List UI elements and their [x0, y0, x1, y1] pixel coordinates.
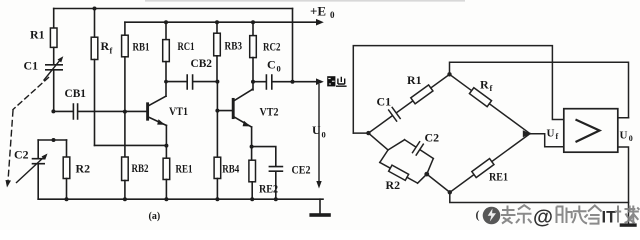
- top edge smudge: [145, 0, 465, 2]
- junction R2 bottom: [65, 197, 69, 201]
- svg-text:C: C: [267, 58, 276, 72]
- svg-text:U: U: [620, 130, 628, 142]
- node VT2 emitter: [250, 145, 254, 149]
- wire +E0 supply rail: [125, 21, 317, 23]
- capacitor CB2: [166, 75, 217, 111]
- capacitor Co: [253, 75, 317, 89]
- resistor RE1: [165, 146, 167, 159]
- char 头: [501, 206, 516, 224]
- resistor Rf: [94, 9, 96, 38]
- svg-text:C2: C2: [425, 131, 440, 145]
- transistor VT1: [146, 104, 149, 119]
- svg-text:f: f: [556, 132, 559, 141]
- capacitor C2 (variable): [33, 140, 45, 199]
- svg-text:R: R: [480, 78, 489, 92]
- label RB2: [132, 161, 149, 175]
- op-amp U1: [564, 109, 618, 153]
- svg-text:U: U: [312, 123, 321, 137]
- power +E0 arrow: [316, 19, 324, 26]
- svg-text:RB2: RB2: [132, 161, 149, 175]
- voltage Uo arrow (left): [318, 85, 320, 183]
- char 技: [615, 206, 636, 224]
- svg-text:VT1: VT1: [169, 106, 188, 118]
- svg-text:IT: IT: [602, 209, 617, 227]
- junction RB4 bottom: [215, 197, 219, 201]
- label R2: [76, 162, 91, 176]
- label R1: [30, 28, 45, 42]
- gang coupling dashed link: [13, 78, 49, 110]
- svg-text:C2: C2: [14, 148, 29, 162]
- junction RB2 bottom: [123, 197, 127, 201]
- resistor RB1: [124, 22, 126, 35]
- svg-text:@: @: [533, 206, 553, 229]
- node RC1 top: [164, 20, 168, 24]
- svg-text:U: U: [547, 128, 555, 140]
- svg-text:CB2: CB2: [191, 58, 213, 70]
- svg-text:C1: C1: [24, 59, 39, 73]
- capacitor CE2: [252, 147, 283, 200]
- svg-text:R2: R2: [76, 162, 91, 176]
- node CB2 tap: [164, 80, 168, 84]
- junction CE2 bottom: [274, 197, 278, 201]
- char 条: [516, 205, 532, 223]
- label Uo: [312, 123, 326, 140]
- transistor VT2: [232, 99, 235, 117]
- label RB1: [133, 40, 150, 54]
- node VT1 base divider: [123, 110, 127, 114]
- wire tank top: [38, 139, 66, 141]
- label 输出 (output, black glyphs): [327, 76, 346, 86]
- label RB3: [225, 39, 243, 53]
- label RE1: [176, 162, 193, 176]
- node bridge bottom: [448, 190, 452, 194]
- svg-text:0: 0: [277, 64, 281, 74]
- char 卧: [557, 207, 572, 224]
- svg-text:R2: R2: [386, 178, 401, 192]
- ground: [319, 199, 321, 213]
- node output: [291, 80, 295, 84]
- capacitor C1 (variable): [46, 65, 62, 70]
- node VT2 base: [215, 109, 219, 113]
- wire block to bottom node: [427, 174, 450, 192]
- ground (right): [620, 223, 637, 226]
- resistor RC1: [165, 22, 167, 39]
- node bridge right (arrow tip): [523, 130, 531, 137]
- label CB1: [65, 88, 87, 100]
- svg-text:0: 0: [330, 10, 335, 20]
- node block output: [424, 172, 429, 177]
- label RC1: [178, 39, 195, 53]
- wire Rf to VT1 emitter: [95, 144, 167, 146]
- watermark 头条@卧龙会IT技术: [476, 205, 640, 228]
- char 术: [628, 206, 640, 224]
- svg-text:RC1: RC1: [178, 39, 195, 53]
- svg-text:RE1: RE1: [489, 170, 508, 184]
- label C1: [24, 59, 39, 73]
- node RC2 / output tap: [251, 80, 255, 84]
- output arrow: [316, 78, 324, 85]
- resistor R1: [53, 9, 55, 29]
- node Rf top: [93, 7, 97, 11]
- label (a): [149, 211, 161, 222]
- resistor RC2: [252, 22, 254, 35]
- node RC2 top: [251, 20, 255, 24]
- svg-text:RB3: RB3: [225, 39, 243, 53]
- label +E0: [310, 4, 335, 21]
- resistor RB3: [216, 22, 218, 33]
- svg-text:VT2: VT2: [260, 107, 279, 119]
- label C2: [425, 131, 440, 145]
- svg-text:+E: +E: [310, 4, 326, 19]
- node RB3 top: [215, 20, 219, 24]
- capacitor CB1: [53, 104, 146, 119]
- char 会: [588, 206, 602, 224]
- wire right node to op-amp lower input: [530, 134, 564, 147]
- label Uf: [547, 128, 559, 142]
- resistor R2: [66, 140, 68, 157]
- label RE1: [489, 170, 508, 184]
- label VT1: [169, 106, 188, 118]
- label R2: [386, 178, 401, 192]
- label C1: [377, 95, 392, 109]
- svg-text:0: 0: [629, 134, 633, 143]
- label RC2: [263, 40, 281, 54]
- resistor RE1 arm: [448, 131, 533, 196]
- svg-text:RB1: RB1: [133, 40, 150, 54]
- char 龙: [572, 206, 587, 224]
- wire A: left node to op-amp upper input: [353, 46, 564, 134]
- wire op-amp outputs: [618, 118, 629, 224]
- node CB2/RB3 junction: [215, 80, 219, 84]
- svg-text:C1: C1: [377, 95, 392, 109]
- svg-text:0: 0: [322, 130, 326, 140]
- label C2: [14, 148, 29, 162]
- label R1: [407, 73, 422, 87]
- resistor Rf arm: [447, 71, 532, 136]
- watermark logo circle: [483, 207, 501, 225]
- node VT1 base / CB1 tap: [51, 109, 55, 113]
- label Co: [267, 58, 281, 74]
- node VT1 emitter: [164, 144, 168, 148]
- svg-text:R: R: [101, 39, 110, 53]
- wire feedback drop to output: [292, 9, 294, 82]
- svg-text:RB4: RB4: [222, 162, 239, 176]
- wire VT2 base: [217, 110, 232, 112]
- svg-text:CB1: CB1: [65, 88, 87, 100]
- svg-text:RE1: RE1: [176, 162, 193, 176]
- svg-text:RC2: RC2: [263, 40, 281, 54]
- resistor RE2: [251, 147, 253, 161]
- junction RE1 bottom: [164, 197, 168, 201]
- label RB4: [222, 162, 239, 176]
- resistor RB2: [124, 112, 126, 157]
- capacitor C1 / resistor R1 arm: [364, 69, 453, 139]
- junction RE2 bottom: [250, 197, 254, 201]
- svg-text:(a): (a): [149, 211, 161, 222]
- svg-text:f: f: [110, 46, 113, 56]
- node bridge top: [447, 72, 451, 76]
- node bridge left: [366, 131, 370, 135]
- svg-text:R1: R1: [30, 28, 45, 42]
- label VT2: [260, 107, 279, 119]
- label CE2: [292, 163, 311, 177]
- label CB2: [191, 58, 213, 70]
- label RE2: [259, 182, 278, 196]
- wire B: top node to op-amp output: [450, 62, 629, 118]
- node C1 to C2/R2 tank: [52, 138, 56, 142]
- label Uo: [620, 130, 633, 144]
- svg-text:CE2: CE2: [292, 163, 311, 177]
- wire top feedback rail: [54, 8, 293, 10]
- C2 / R2 parallel block: [368, 133, 388, 150]
- label Rf: [101, 39, 113, 56]
- svg-text:R1: R1: [407, 73, 422, 87]
- wire bottom rail: [38, 198, 323, 200]
- label Rf: [480, 78, 493, 94]
- svg-text:f: f: [490, 83, 493, 93]
- svg-text:(: (: [476, 208, 480, 222]
- resistor RB4: [216, 111, 218, 158]
- wire bottom rail (right circuit): [450, 192, 629, 202]
